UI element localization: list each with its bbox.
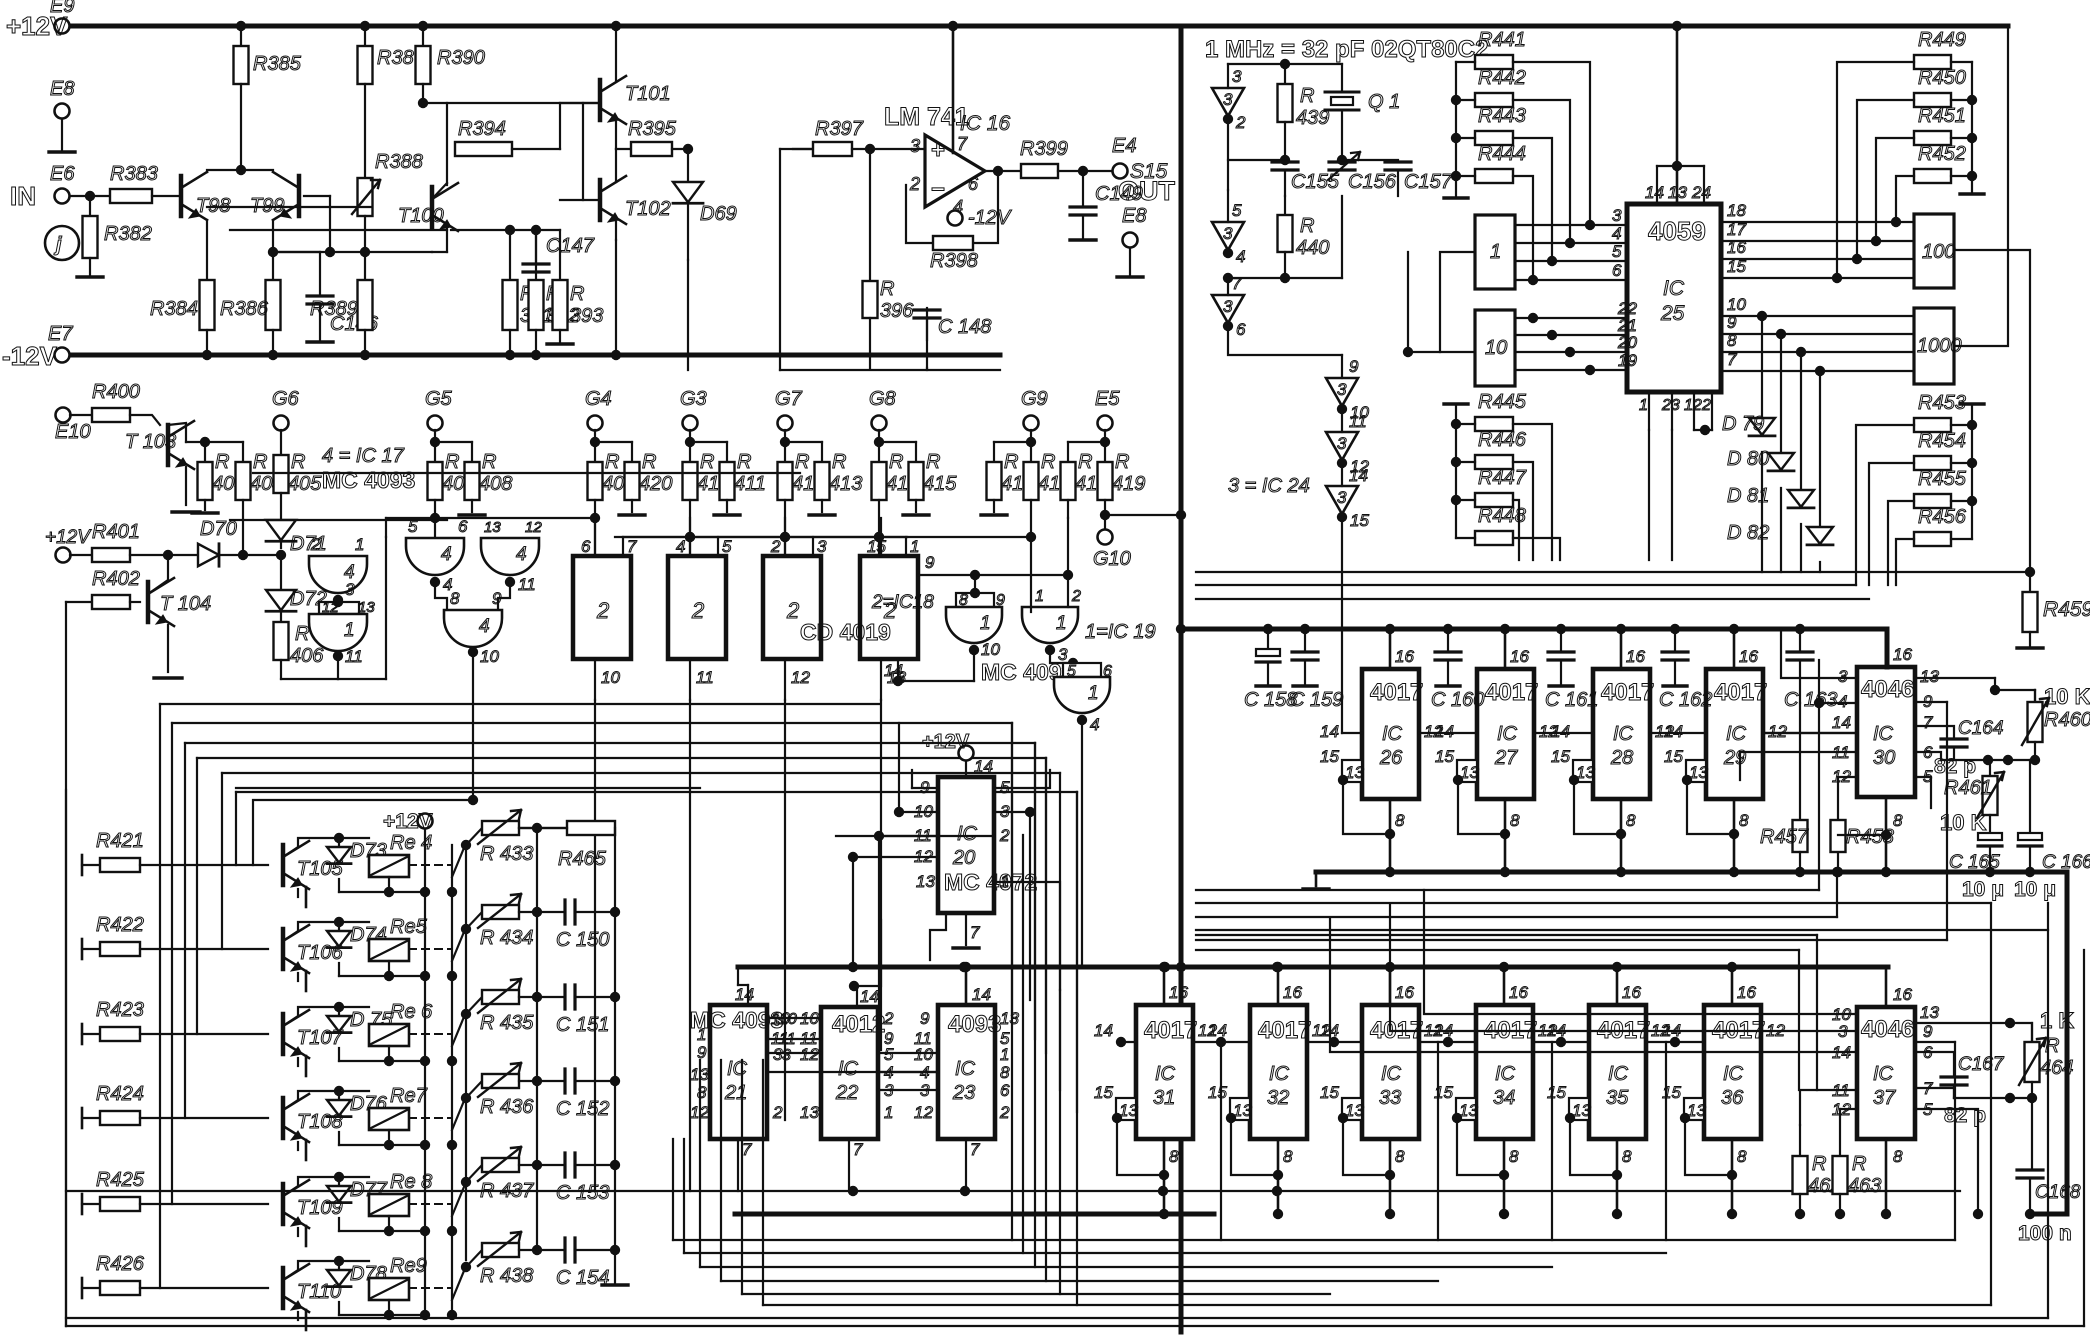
wire R442 right [1513,100,1570,243]
wire pin9 out [1915,1041,1955,1043]
svg-text:R: R [1004,451,1018,473]
wire E5 to divider [1105,514,1181,516]
node E4 [1113,164,1128,179]
svg-text:16: 16 [1737,983,1756,1002]
svg-text:13: 13 [358,599,375,616]
wire pin11 left [1800,1090,1857,1125]
wire R445 right [1513,424,1552,560]
wire harness row mid [1196,929,2048,931]
svg-text:CD 4019: CD 4019 [800,619,891,645]
svg-text:14: 14 [1208,1021,1227,1040]
wire harness row [160,703,880,705]
svg-text:R: R [291,451,305,473]
wire R394 [207,206,372,208]
svg-text:10: 10 [1727,295,1746,314]
svg-text:2: 2 [770,537,781,556]
crystal Q1 [1341,64,1343,92]
bus bottom right [735,1212,1214,1217]
svg-text:4: 4 [1236,247,1245,266]
wire pin6 [1915,752,1941,760]
box x1000 [1914,308,1954,384]
svg-text:D 79: D 79 [1722,413,1764,435]
wire pin12 left [1840,1108,1857,1110]
node G7 [778,416,793,431]
svg-text:1: 1 [697,1025,706,1044]
IC25 4059 box [1627,204,1721,392]
node G9 [1024,416,1039,431]
wire harness drop [171,723,173,1204]
svg-text:R: R [445,451,459,473]
svg-text:9: 9 [925,553,935,572]
wire 2048 vert [2047,903,2049,1318]
wire T110 collector [283,1261,369,1280]
wire ic20 o4 [994,882,1060,990]
IC23 pin14 [965,967,968,1005]
IC25 bottom pins [1648,392,1650,430]
wire bundle 572 [1196,571,2030,573]
wire pin1 down [1648,430,1650,560]
capacitor C159 [1300,624,1310,634]
pin 4 -12V [948,211,963,226]
svg-text:R422: R422 [96,914,144,936]
wire gate10 row [253,472,800,474]
svg-text:7: 7 [853,1140,863,1159]
svg-text:C157: C157 [1404,171,1453,193]
svg-text:R442: R442 [1478,67,1526,89]
wire ic20 in3 [879,835,938,837]
pin8 stub [1731,1139,1734,1214]
resistor R459 [2029,572,2031,592]
wire in1 [1030,607,1032,612]
wire G3 [689,430,691,442]
IC30 pin16 [1885,629,1890,667]
resistor R398 [933,236,973,250]
svg-text:37: 37 [1873,1087,1896,1109]
resistor R393 [559,230,561,280]
bus bottom mid [737,967,739,985]
svg-text:4093: 4093 [948,1011,1001,1038]
wire pot rail [536,828,538,1250]
svg-text:34: 34 [1493,1087,1515,1109]
wire G7 [784,430,786,442]
relay Re7 [369,1108,409,1130]
pin13 notch [1342,760,1362,782]
svg-text:9: 9 [1349,357,1359,376]
svg-text:C168: C168 [2035,1182,2081,1203]
svg-text:4: 4 [676,537,685,556]
svg-text:413: 413 [829,473,862,495]
svg-text:14: 14 [860,987,879,1006]
wire R388 to R389 [364,216,366,280]
svg-text:1: 1 [344,620,355,641]
svg-text:6: 6 [1000,1081,1010,1100]
switch [452,1012,466,1046]
svg-text:4017: 4017 [1714,679,1767,706]
wire harness row bottom [684,1252,1666,1254]
wire T101 base [560,102,600,104]
wire sw [447,971,457,981]
resistor R383 [110,189,152,203]
wire IC21-22 rows [767,1017,821,1019]
svg-text:R: R [1812,1153,1826,1175]
IC22 4012 box [821,1007,878,1139]
svg-text:R383: R383 [110,163,158,185]
+12V rail [70,24,2008,29]
svg-text:R452: R452 [1918,143,1966,165]
svg-text:4 = IC 17: 4 = IC 17 [322,445,405,467]
svg-text:3: 3 [1337,380,1347,399]
svg-text:T109: T109 [297,1197,343,1219]
resistor R389 [358,280,373,330]
svg-text:E8: E8 [50,78,74,100]
dashed link [409,864,452,866]
wire R402 left down [65,602,67,1326]
resistor R419 [1104,442,1106,462]
resistor R439 [1284,64,1286,84]
svg-text:419: 419 [1112,473,1145,495]
capacitor C165 [1978,833,2002,840]
pin8 stub [1504,799,1507,872]
svg-text:3: 3 [345,580,355,599]
capacitor C146 [307,296,333,304]
svg-text:420: 420 [639,473,672,495]
svg-text:G6: G6 [272,388,300,410]
svg-text:R: R [1300,215,1314,237]
wire box pin drop [594,700,596,1191]
ground R452 [1960,192,1984,195]
IC IC 28 4017 box [1593,669,1650,799]
wire T107 emitter [297,1058,299,1066]
svg-text:7: 7 [627,537,637,556]
wire ic20 o3 [836,835,994,837]
svg-text:C 154: C 154 [556,1267,609,1289]
svg-text:2: 2 [883,1009,894,1028]
svg-text:8: 8 [1283,1147,1293,1166]
wire harness row bottom [700,1266,1552,1268]
IC21 pin7 [737,1139,739,1191]
wire pin13 right [1915,677,1995,679]
wire gate out 3 [337,598,339,610]
svg-text:8: 8 [1395,811,1405,830]
resistor R399 [1021,164,1058,178]
IC23 4093 box [938,1005,995,1139]
svg-text:IC 16: IC 16 [960,112,1011,135]
svg-text:IC: IC [1495,1063,1516,1085]
IC21 pin14 [747,985,749,1005]
svg-text:R: R [605,451,619,473]
svg-text:IC: IC [957,823,978,845]
svg-text:2: 2 [691,598,704,623]
svg-text:22: 22 [835,1082,858,1104]
svg-text:3: 3 [1223,224,1233,243]
wire bundle 599 [1196,598,1869,600]
inverter IC24b [1212,222,1244,250]
inverter IC24f [1326,486,1358,514]
svg-text:R459: R459 [2043,598,2090,621]
svg-text:R441: R441 [1478,29,1526,51]
svg-text:4017: 4017 [1258,1017,1311,1044]
svg-text:10: 10 [779,1011,797,1028]
diode D69 [687,149,689,180]
capacitor C157 [1342,159,1398,161]
svg-text:R423: R423 [96,999,144,1021]
svg-text:8: 8 [1510,811,1520,830]
svg-text:1: 1 [1088,683,1099,704]
svg-text:8: 8 [1509,1147,1519,1166]
svg-text:D 80: D 80 [1727,448,1769,470]
svg-text:13: 13 [800,1103,819,1122]
wire harness drop right [1076,792,1078,1112]
pin16 stub [1731,967,1734,1005]
transistor T110 [281,1268,286,1308]
svg-text:IC: IC [1608,1063,1629,1085]
wire harness row [222,772,1060,774]
node G5 [428,416,443,431]
wire pin5 down [1915,777,1931,808]
svg-text:T 103: T 103 [125,431,176,453]
svg-text:3: 3 [1612,206,1622,225]
svg-text:G4: G4 [585,388,612,410]
capacitor C164 [1941,739,1967,747]
wire R450 left [1857,100,1914,259]
wire bundle 585 [1196,584,1856,586]
wire harness row [197,757,1046,759]
svg-text:100: 100 [1922,241,1955,263]
wire -12V return [780,369,1000,371]
resistor R425 [81,1194,84,1214]
svg-text:14: 14 [1551,722,1570,741]
svg-text:R425: R425 [96,1169,145,1191]
svg-text:3 = IC 24: 3 = IC 24 [1228,475,1310,497]
wire harness row mid [1196,939,1947,941]
capacitor C162 [1670,624,1680,634]
IC37 pin16 [1885,967,1888,1007]
svg-text:14: 14 [1094,1021,1113,1040]
wire sw [447,1140,457,1150]
wire D81 vert [1796,347,1806,357]
pin13 notch [1342,1098,1362,1120]
svg-text:3: 3 [910,136,920,156]
pin16 stub [1163,967,1166,1005]
svg-text:7: 7 [742,1140,752,1159]
svg-text:13: 13 [916,872,935,891]
IC18 section box 1 [573,556,631,659]
svg-text:E5: E5 [1095,388,1120,410]
svg-text:11: 11 [518,575,536,594]
wire IC25 right pins row1 [1721,221,1914,223]
svg-text:3: 3 [1838,667,1848,686]
wire sw [447,887,457,897]
wire harness row mid [1196,889,1819,891]
svg-text:15: 15 [1350,511,1369,530]
svg-text:G7: G7 [775,388,803,410]
right border thick [2065,872,2070,1214]
svg-text:29: 29 [1723,747,1746,769]
svg-text:15: 15 [1320,747,1339,766]
diode D76 [338,1091,340,1098]
svg-text:R451: R451 [1918,105,1966,127]
svg-text:R456: R456 [1918,506,1967,528]
pin8 stub [1277,1139,1280,1214]
pot R434 [466,912,482,929]
nand gate IC17d [481,538,539,575]
diode D81 [1788,490,1814,507]
feedback loop pin2 [906,185,933,243]
resistor R423 [81,1024,84,1044]
wire T104 emitter [167,625,169,672]
wire harness drop right [1034,743,1036,1039]
svg-text:+12V: +12V [922,731,970,753]
svg-text:13: 13 [1920,1003,1939,1022]
wire IC26 pin14 in [1342,732,1362,734]
svg-text:15: 15 [1094,1083,1113,1102]
wire 13 loop [1452,1113,1462,1123]
svg-text:11: 11 [1349,412,1367,431]
resistor R462 [1799,1125,1801,1156]
IC37 4046 box [1857,1007,1915,1139]
wire ic20 o2 [994,811,1030,813]
resistor R411 [720,462,735,500]
svg-text:16: 16 [1739,647,1758,666]
svg-text:4017: 4017 [1601,679,1654,706]
svg-text:4: 4 [1838,692,1847,711]
rail right pots [614,828,616,1283]
transistor T104 [146,582,151,622]
svg-text:R455: R455 [1918,468,1967,490]
dashed link [409,1117,452,1119]
svg-text:C155: C155 [1291,171,1340,193]
wire pin4 [1819,702,1857,704]
svg-text:R449: R449 [1918,29,1966,51]
svg-text:R443: R443 [1478,105,1526,127]
wire 1991 vert [1990,903,1992,1305]
svg-text:12: 12 [1768,722,1787,741]
transistor T109 [281,1184,286,1224]
pin16 stub [1733,629,1736,669]
svg-text:14: 14 [1645,183,1664,202]
svg-text:R461: R461 [1944,777,1992,799]
IC18 section box 4 [860,556,918,659]
svg-text:16: 16 [1893,985,1912,1004]
resistor R412 [784,442,786,462]
op-amp U-IC16 LM741 body [925,135,985,207]
nand gate IC17b notch [319,602,359,614]
resistor R442 [1475,93,1513,107]
wire inv chain down [1341,517,1343,733]
svg-text:R: R [295,623,309,645]
capacitor C150 [565,900,575,924]
nand gate IC17e [444,610,502,647]
wire 1000 out [1954,28,2008,346]
svg-text:R: R [1300,85,1314,107]
diode D79 [1749,418,1775,435]
wire T108 emitter [297,1142,299,1150]
svg-text:R 434: R 434 [480,927,533,949]
svg-text:2: 2 [310,535,321,554]
pin13 notch [1230,1098,1250,1120]
wire R449-452 right bus [1971,62,1973,192]
svg-text:R: R [1078,451,1092,473]
resistor R394 [455,142,512,156]
resistor R455 [1914,494,1951,508]
wire box pin drop [880,700,882,1050]
svg-text:R446: R446 [1478,429,1527,451]
box x100 [1914,214,1954,288]
IC32 4017 box [1250,1005,1307,1139]
svg-text:15: 15 [1551,747,1570,766]
wire D79 vert [1757,311,1767,321]
svg-text:C 160: C 160 [1431,689,1484,711]
IC22 pin14 [856,986,858,1007]
wire out [1058,170,1113,172]
svg-text:IC: IC [1873,1063,1894,1085]
svg-text:1 MHz = 32 pF 02QT80C2: 1 MHz = 32 pF 02QT80C2 [1205,36,1488,63]
svg-text:100 n: 100 n [2018,1222,2072,1245]
box x1 [1475,215,1515,289]
wire harness drop [196,758,198,1034]
wire sw [447,1226,457,1236]
wire node2 [1228,277,1342,279]
diode D72 [280,555,282,588]
wire relay bottom [388,877,390,892]
resistor R408 [465,462,480,500]
svg-text:7: 7 [1232,274,1242,293]
svg-text:C 161: C 161 [1545,689,1598,711]
rail +12V relays [418,814,433,829]
wire T99 collector [272,220,274,280]
wire pin6 C167 [1915,1052,1954,1076]
svg-text:23: 23 [952,1082,975,1104]
resistor R420 [625,462,640,500]
wire R448 right [1513,538,1560,560]
svg-text:T110: T110 [297,1281,341,1303]
svg-text:3: 3 [1223,90,1233,109]
wire right border thin [2083,950,2085,1326]
svg-text:10: 10 [601,668,620,687]
wire T100 out [230,519,447,521]
svg-text:R398: R398 [930,250,978,272]
resistor R395 [616,148,631,150]
wire harness drop right [1011,723,1013,1018]
svg-text:3: 3 [1232,67,1242,86]
bus +V mid [1181,627,1887,632]
wire R456 left [1896,539,1914,585]
wire relay bottom [388,1216,390,1231]
wire IC26-27 [1419,732,1477,734]
svg-text:MC 4093: MC 4093 [322,467,415,493]
svg-text:8: 8 [1893,1147,1903,1166]
svg-text:5: 5 [722,537,732,556]
wire IC19c out down [1081,720,1083,966]
svg-text:2: 2 [1071,588,1081,605]
svg-text:C 165: C 165 [1949,852,2000,873]
pin8 stub [1163,1139,1166,1214]
wire IC29-30 [1763,732,1857,734]
svg-text:15: 15 [1435,747,1454,766]
pin16 stub [1389,629,1392,669]
svg-text:R389: R389 [310,298,358,320]
pin13 notch [1573,760,1593,782]
IC37 pin8 [1885,1139,1888,1214]
svg-text:8: 8 [1395,1147,1405,1166]
svg-text:C 153: C 153 [556,1182,609,1204]
wire pin7 [1915,1088,1954,1098]
pin8 stub [1503,1139,1506,1214]
diode D80 [1768,453,1794,470]
svg-text:31: 31 [1153,1087,1175,1109]
svg-text:IC: IC [1663,277,1685,300]
svg-text:4046: 4046 [1861,676,1914,703]
